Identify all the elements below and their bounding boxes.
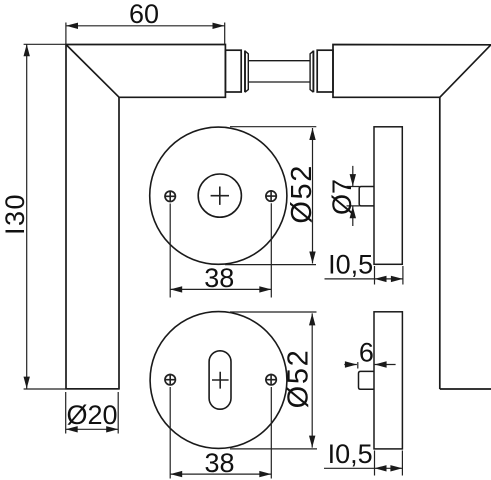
svg-text:38: 38 bbox=[204, 263, 234, 293]
svg-text:38: 38 bbox=[204, 448, 234, 478]
svg-text:Ø7: Ø7 bbox=[327, 179, 357, 215]
svg-text:I0,5: I0,5 bbox=[328, 249, 373, 279]
svg-text:I0,5: I0,5 bbox=[328, 439, 373, 469]
svg-text:Ø52: Ø52 bbox=[286, 164, 318, 224]
svg-text:I30: I30 bbox=[0, 193, 30, 235]
svg-text:Ø20: Ø20 bbox=[66, 400, 117, 430]
svg-text:60: 60 bbox=[129, 0, 159, 29]
svg-text:6: 6 bbox=[359, 338, 374, 368]
svg-text:Ø52: Ø52 bbox=[283, 349, 315, 409]
